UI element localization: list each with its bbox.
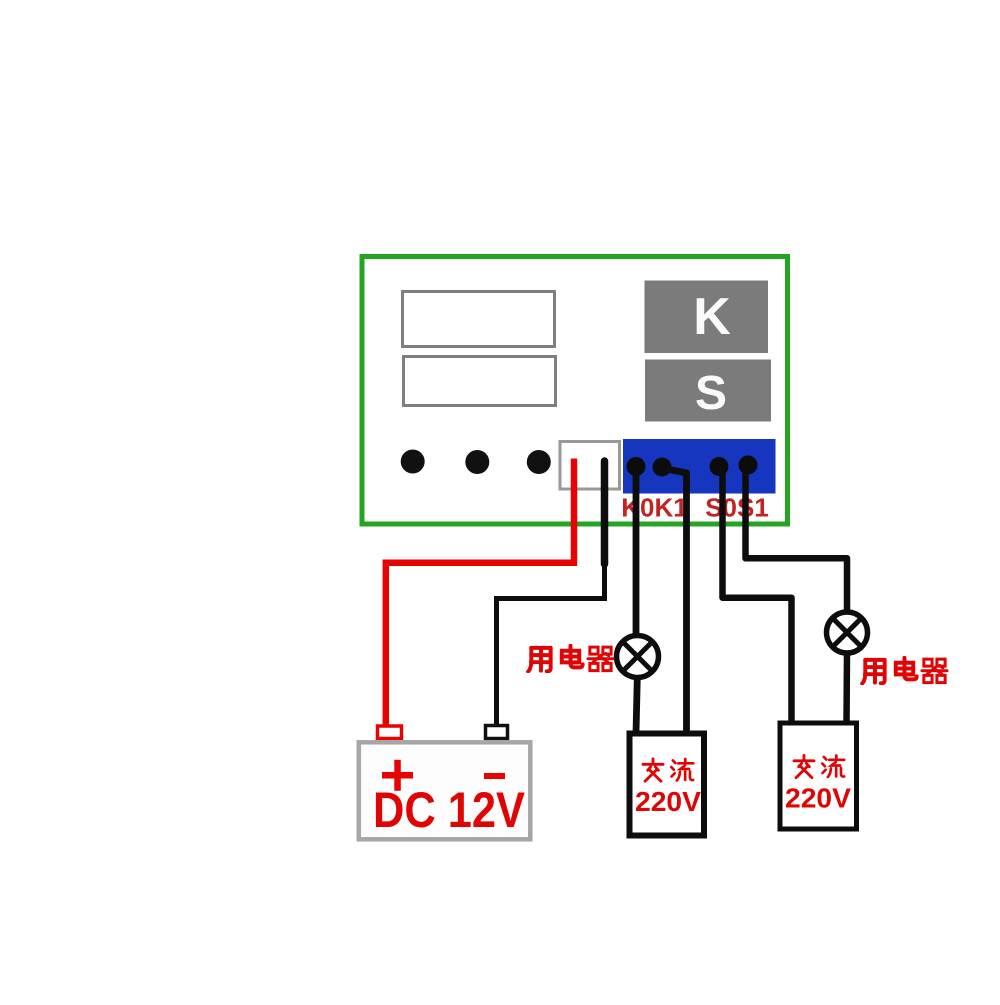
svg-text:220V: 220V: [785, 783, 851, 814]
wire lamp L1 to AC box 1: [636, 677, 637, 733]
terminal K0: [627, 457, 646, 476]
wire S1 to lamp L2: [746, 466, 848, 612]
wire K0 to lamp L1: [633, 467, 640, 634]
AC source box 2: [780, 723, 857, 829]
terminal block: [623, 439, 776, 494]
lamp L2: [827, 612, 868, 653]
label load right (yong dian qi): [862, 658, 947, 684]
AC source box 1: [2, 4, 704, 836]
controller board outline: [362, 257, 788, 525]
display window 2: [404, 357, 556, 406]
svg-text:K0K1: K0K1: [621, 493, 687, 523]
sensor connector: [560, 442, 620, 490]
battery DC 12V: [359, 742, 531, 839]
terminal S1: [739, 456, 758, 475]
svg-text:DC 12V: DC 12V: [373, 782, 526, 838]
svg-text:S: S: [695, 367, 727, 420]
battery terminal plus: [378, 726, 402, 739]
board hole 3: [527, 450, 551, 474]
wire lamp L2 to AC box 2: [843, 654, 850, 724]
wire S0 to AC box 2: [723, 467, 792, 724]
svg-text:220V: 220V: [635, 786, 701, 817]
label K0K1: [621, 493, 687, 523]
button K: [645, 281, 769, 354]
svg-text:S0S1: S0S1: [705, 493, 769, 523]
display window 1: [403, 292, 555, 347]
svg-text:K: K: [693, 288, 731, 346]
battery terminal minus: [486, 726, 508, 739]
terminal S0: [710, 457, 729, 476]
terminal K1: [653, 458, 672, 477]
wire K1 to AC box 1: [662, 468, 687, 733]
button S: [645, 360, 771, 422]
label load left (yong dian qi): [528, 646, 613, 672]
lamp L1: [617, 636, 659, 678]
board hole 1: [401, 450, 425, 474]
wire red sensor to battery plus: [386, 459, 574, 726]
label S0S1: [705, 493, 769, 523]
sensor probe black lead: [497, 461, 605, 724]
board hole 2: [465, 450, 489, 474]
